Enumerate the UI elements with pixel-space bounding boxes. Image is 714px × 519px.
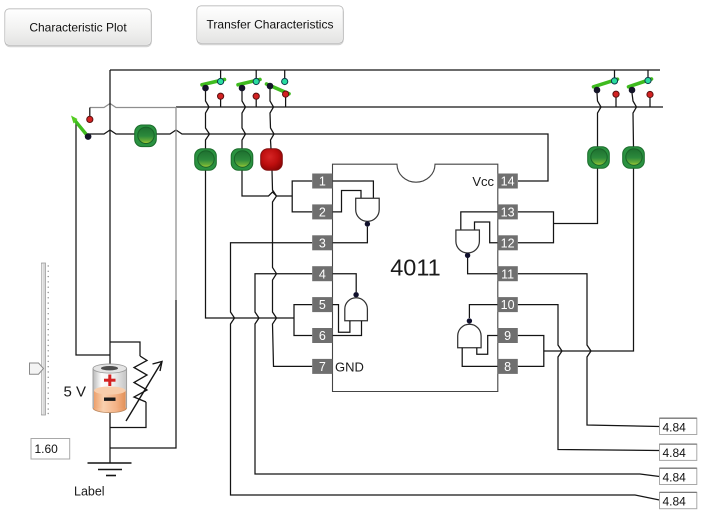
wire: S3 pivot down to LED D3 and on to pins 1-2: [242, 91, 292, 196]
svg-text:4: 4: [319, 267, 326, 281]
pin 3: [312, 235, 332, 250]
svg-text:GND: GND: [335, 359, 364, 374]
switch S4 lever: [267, 84, 290, 94]
svg-text:4.84: 4.84: [663, 446, 687, 460]
switch S2 lever: [202, 80, 225, 85]
pin 13: [498, 204, 518, 219]
pin 8: [498, 359, 518, 374]
wire: potentiometer bottom to battery bottom: [110, 402, 146, 428]
battery B1 5V: [93, 364, 127, 413]
svg-text:9: 9: [504, 329, 511, 343]
switch S5 cyan stub: [614, 70, 616, 78]
potentiometer R1 wiper arrow: [126, 362, 162, 422]
switch S2 cyan stub: [220, 70, 222, 78]
wire: ground rail left gray segment: [90, 104, 176, 108]
wire: pins 5-6 input bracket: [294, 305, 312, 336]
gate U1B body: [345, 298, 368, 321]
svg-text:4.84: 4.84: [663, 495, 687, 509]
LED D3: [231, 149, 253, 171]
wire: S2 pivot down to LED D2 and on to pins 5-6: [206, 91, 295, 318]
gate U1A input wire pin2: [333, 191, 362, 212]
wire: battery top to potentiometer top: [110, 342, 140, 356]
switch S3 cyan stub: [255, 70, 257, 78]
wire: battery top feed from top rail: [109, 70, 111, 367]
gate U1B input wire pin5: [333, 305, 350, 333]
svg-text:Characteristic Plot: Characteristic Plot: [29, 21, 127, 35]
wire: left switch common down to battery node: [76, 121, 110, 355]
gate U1D input wire pin8: [462, 348, 497, 367]
potentiometer R1 zigzag: [134, 356, 147, 402]
svg-text:1.60: 1.60: [35, 442, 59, 456]
gate U1D output wire to pin10: [469, 305, 497, 318]
slider tick dots: [48, 265, 49, 414]
switch S6 lever: [629, 79, 652, 87]
meter M3 value box: [660, 468, 697, 484]
LED D1 on Vcc rail: [135, 125, 157, 147]
pin 6: [312, 328, 332, 343]
pin 1: [312, 174, 332, 189]
label box 1.60: [31, 439, 70, 460]
wire: ground-rail drop to ground node: [175, 107, 177, 300]
wire: pins 1-2 input bracket: [292, 181, 312, 212]
wire: pin 3 to meter M4: [231, 243, 660, 500]
wire: pins 9-8 to LED D6: [544, 168, 634, 351]
switch S1 lever: [75, 120, 89, 137]
svg-text:12: 12: [501, 236, 515, 250]
wire: S5 pivot down to LED D5: [597, 93, 601, 147]
pin 4: [312, 266, 332, 281]
svg-text:Transfer Characteristics: Transfer Characteristics: [207, 18, 334, 32]
switch S6 cyan throw: [645, 77, 651, 83]
wire: S4 pivot down through LED D4 to pin 7: [270, 89, 312, 366]
gate U1A input wire pin1: [333, 181, 374, 198]
gate U1D body: [458, 324, 481, 347]
pin 7: [312, 359, 332, 374]
switch S5 lever: [594, 79, 618, 87]
switch S2 pivot: [202, 85, 209, 92]
switch S4 red stub: [285, 98, 287, 108]
svg-text:2: 2: [319, 206, 326, 220]
switch S5 red stub: [615, 98, 617, 108]
svg-text:4.84: 4.84: [663, 420, 687, 434]
switch S5 red throw: [613, 91, 619, 97]
svg-text:Label: Label: [74, 485, 105, 499]
switch S5 cyan throw: [611, 78, 617, 84]
button Transfer Characteristics: [197, 6, 343, 45]
gate U1D output junction: [467, 318, 472, 323]
wire: pin 11 to meter M1: [518, 274, 660, 427]
wire: ground rail: [176, 106, 663, 108]
gate U1D input wire pin9: [477, 336, 498, 355]
slider track: [42, 263, 46, 415]
switch S2 cyan throw: [218, 78, 224, 84]
pin 10: [498, 297, 518, 312]
button Characteristic Plot: [5, 9, 151, 47]
ground symbol: [88, 463, 132, 476]
switch S1 pivot contact: [85, 133, 92, 140]
svg-text:4011: 4011: [390, 255, 441, 281]
pin 12: [498, 235, 518, 250]
svg-text:5 V: 5 V: [64, 383, 87, 400]
LED D2: [195, 149, 217, 171]
svg-text:4.84: 4.84: [663, 470, 687, 484]
wire: ground-rail drop lower part: [110, 300, 176, 448]
LED D5: [588, 147, 610, 169]
gate U1B input wire pin6: [333, 321, 362, 336]
svg-text:13: 13: [501, 206, 515, 220]
wire: S6 pivot down to LED D6: [632, 93, 637, 147]
slider handle: [30, 363, 44, 374]
gate U1B output junction: [353, 292, 358, 297]
svg-text:5: 5: [319, 298, 326, 312]
svg-text:8: 8: [504, 360, 511, 374]
gate U1B output wire to pin4: [333, 274, 357, 292]
meter M2 value box: [660, 444, 697, 460]
wire: pins 13-12 to LED D5: [554, 168, 598, 224]
pin 14: [498, 174, 518, 189]
gate U1C body: [456, 230, 480, 253]
switch S1 red throw: [87, 116, 93, 122]
svg-text:7: 7: [319, 360, 326, 374]
pin 11: [498, 266, 518, 281]
switch S2 red throw: [218, 93, 224, 99]
wire: pins 9-8 external bracket: [518, 336, 544, 367]
switch S1 red throw stub: [89, 108, 91, 117]
switch S1 lever tip: [71, 116, 78, 124]
gate U1C input wire pin12: [475, 222, 498, 243]
switch S6 cyan stub: [647, 70, 649, 78]
svg-text:14: 14: [501, 175, 515, 189]
switch S4 red throw: [283, 91, 289, 97]
gate U1A body: [356, 198, 380, 221]
IC U1 body: [333, 164, 498, 391]
svg-text:Vcc: Vcc: [472, 174, 494, 189]
switch S4 cyan throw: [282, 78, 288, 84]
wire: pins 13-12 external bracket: [518, 212, 554, 243]
meter M4 value box: [660, 492, 697, 508]
switch S6 red throw: [647, 91, 653, 97]
LED D4 red: [261, 149, 283, 171]
switch S5 pivot: [594, 87, 601, 94]
wire: top rail (+V): [110, 69, 660, 71]
svg-text:3: 3: [319, 236, 326, 250]
pin 2: [312, 204, 332, 219]
switch S3 red stub: [255, 99, 257, 107]
switch S6 red stub: [649, 98, 651, 107]
svg-text:11: 11: [501, 267, 514, 281]
gate U1C output wire to pin11: [468, 258, 498, 274]
meter M1 value box: [660, 418, 697, 434]
svg-text:6: 6: [319, 329, 326, 343]
switch S3 red throw: [253, 93, 259, 99]
switch S3 cyan throw: [253, 78, 259, 84]
wire: pin 10 to meter M2: [518, 305, 660, 451]
switch S4 cyan stub: [284, 70, 286, 78]
switch S2 red stub: [220, 99, 222, 107]
svg-text:10: 10: [501, 298, 515, 312]
svg-text:1: 1: [319, 175, 326, 189]
wire: pin 4 to meter M3: [255, 274, 660, 477]
switch S3 pivot: [239, 85, 246, 92]
pin 5: [312, 297, 332, 312]
wire: battery bottom to ground: [109, 412, 111, 463]
wire: Vcc rail to pin 14: [88, 130, 548, 181]
switch S4 pivot: [267, 83, 274, 90]
pin 9: [498, 328, 518, 343]
gate U1C output junction: [465, 253, 470, 258]
LED D6: [623, 147, 645, 169]
gate U1A output wire to pin3: [333, 227, 368, 243]
gate U1C input wire pin13: [461, 212, 498, 230]
switch S3 lever: [238, 80, 260, 85]
gate U1A output junction: [365, 221, 370, 226]
switch S6 pivot: [629, 87, 636, 94]
